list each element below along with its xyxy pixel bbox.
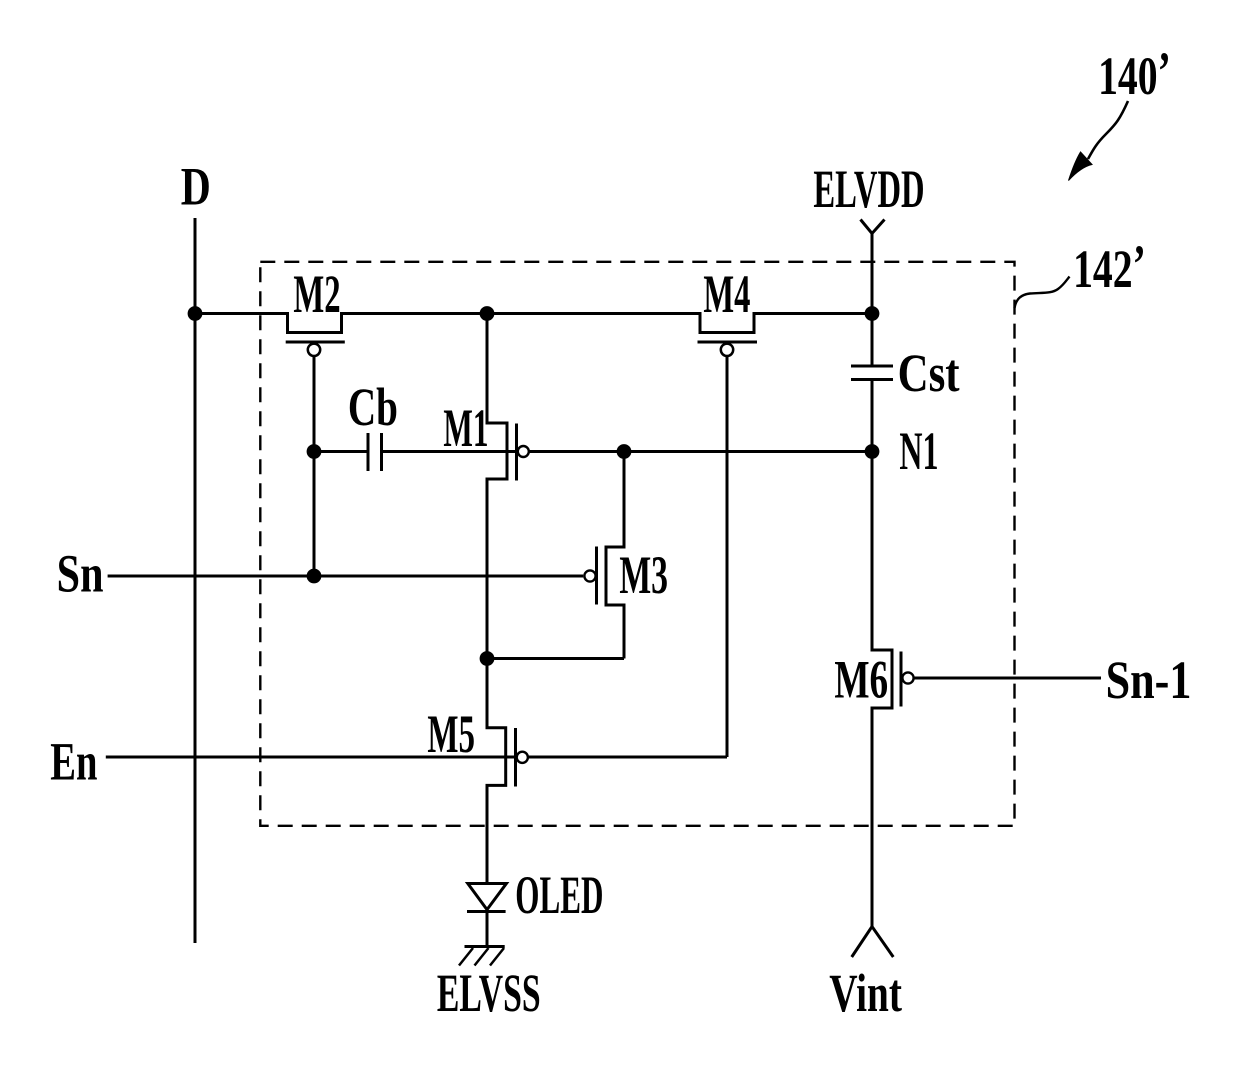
svg-text:En: En (50, 732, 97, 792)
leader squiggle to 142' (1015, 277, 1070, 309)
wire top rail M2 to M4 (342, 312, 701, 315)
node dot Sn/M2 gate (307, 569, 322, 584)
arrowhead of 140' leader (1069, 152, 1093, 181)
svg-text:Cb: Cb (348, 378, 398, 438)
wire Sn row (108, 575, 584, 578)
node dot ELVDD/top-rail (865, 306, 880, 321)
wire M4 gate down to En (726, 356, 729, 757)
ground ELVSS chassis (465, 945, 505, 948)
svg-text:M1: M1 (443, 397, 488, 458)
wire top rail from D to M2 (195, 312, 288, 315)
svg-text:Cst: Cst (898, 342, 960, 403)
wire Cb right plate to N1 (node N1 row) (382, 450, 873, 453)
capacitor Cb (367, 433, 370, 471)
transistor M3 (606, 452, 624, 659)
dashed pixel-circuit box 142' (260, 262, 1014, 826)
svg-text:Sn: Sn (57, 543, 104, 603)
svg-text:M6: M6 (834, 650, 888, 711)
wire data line D vertical (194, 218, 197, 943)
wire M2 gate down to Sn (313, 356, 316, 576)
svg-text:142’: 142’ (1073, 235, 1146, 299)
svg-text:N1: N1 (899, 420, 938, 481)
node N1 dot (865, 444, 880, 459)
Vint terminal arrow (852, 927, 894, 958)
svg-text:Vint: Vint (829, 964, 902, 1024)
leader arrow from 140' (1088, 101, 1128, 159)
svg-text:M3: M3 (619, 545, 668, 605)
wire M3 drain to M1/M5 node (487, 657, 624, 660)
node dot M1-M5-M3 junction (480, 651, 495, 666)
transistor M1 (487, 314, 507, 659)
node dot D/top-rail (188, 306, 203, 321)
svg-text:Sn-1: Sn-1 (1106, 650, 1192, 710)
wire Cst bottom to N1 (871, 380, 874, 452)
node dot Cb/M2 gate (307, 444, 322, 459)
node dot M1 drain/top-rail (480, 306, 495, 321)
node dot M3 source/N1 row (617, 444, 632, 459)
transistor M5 (487, 659, 506, 883)
wire M6 gate to Sn-1 (914, 677, 1101, 680)
transistor M4 (700, 312, 754, 333)
svg-text:M4: M4 (703, 263, 750, 324)
OLED diode (468, 884, 507, 910)
wire top rail M4 to ELVDD node (754, 312, 872, 315)
svg-text:M2: M2 (293, 263, 340, 324)
transistor M2 (288, 312, 342, 333)
wire ELVDD drop (871, 234, 874, 314)
wire ELVDD node to Cst top (871, 314, 874, 367)
svg-text:ELVDD: ELVDD (813, 158, 924, 219)
wire node to Cb left plate (314, 450, 368, 453)
svg-text:140’: 140’ (1098, 42, 1171, 106)
svg-text:D: D (181, 157, 211, 217)
wire En row (106, 756, 727, 759)
svg-text:M5: M5 (427, 704, 475, 764)
transistor M6 (872, 452, 892, 927)
svg-text:OLED: OLED (515, 864, 603, 925)
capacitor Cst (851, 365, 893, 368)
ELVDD terminal arrow (861, 220, 885, 234)
svg-text:ELVSS: ELVSS (437, 963, 541, 1023)
